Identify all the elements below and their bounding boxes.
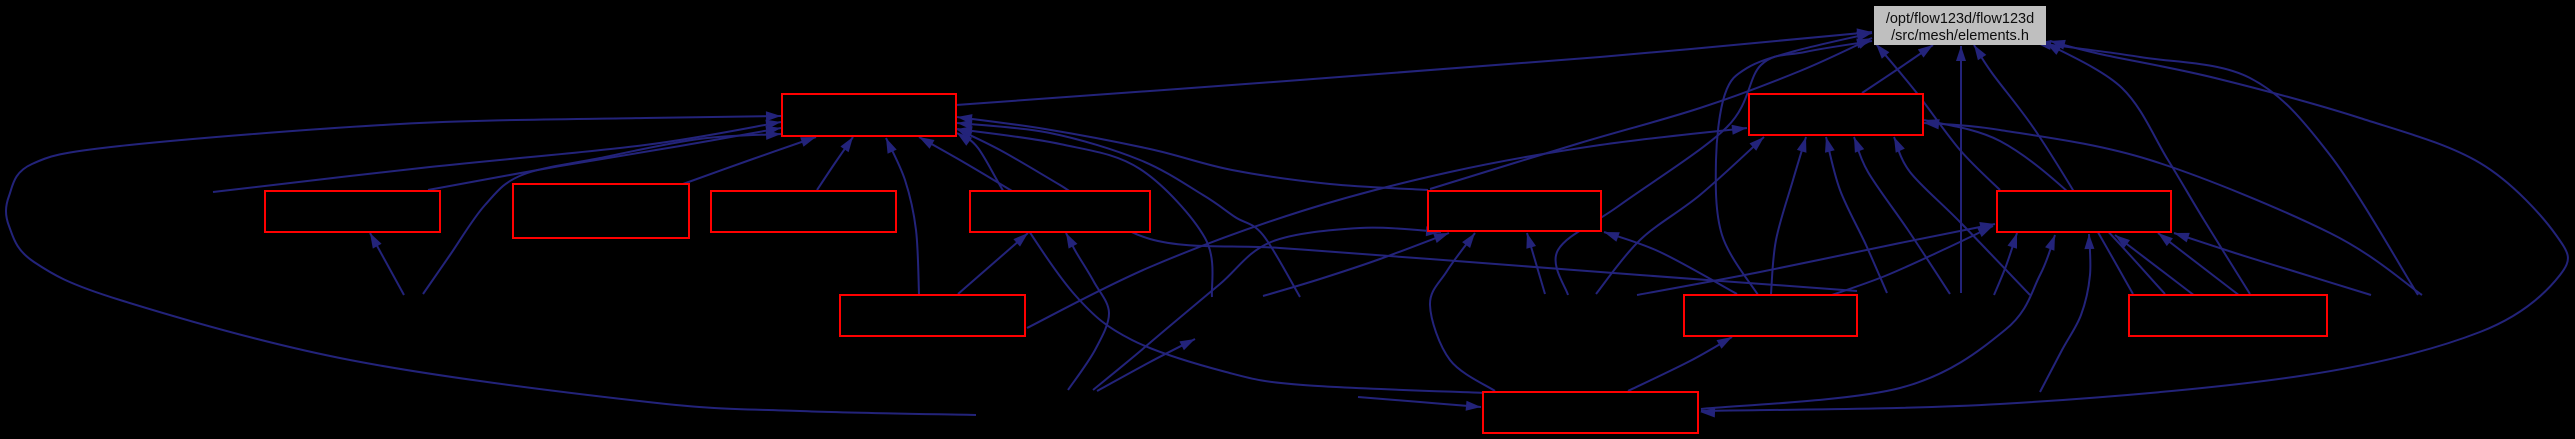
svg-text:/src/mesh/elements.h: /src/mesh/elements.h (1891, 28, 2029, 44)
svg-text:/opt/flow123d/flow123d: /opt/flow123d/flow123d (1886, 11, 2034, 27)
